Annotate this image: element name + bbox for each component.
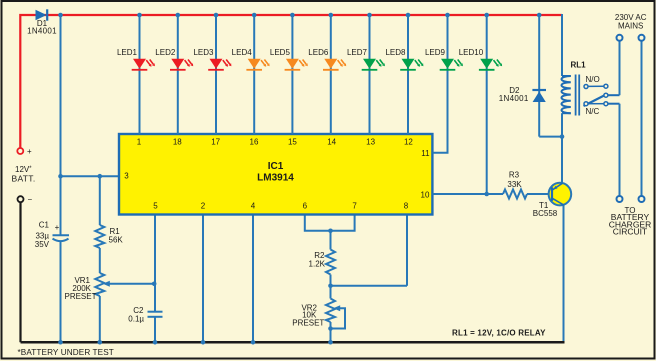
svg-text:BATT.: BATT. [12,174,36,184]
svg-text:LED1: LED1 [117,48,138,57]
svg-text:1N4001: 1N4001 [27,27,57,36]
svg-text:10: 10 [421,191,430,200]
svg-text:LED6: LED6 [308,48,329,57]
transistor T1 BC558 [533,183,571,218]
230V AC mains terminals [615,13,647,41]
svg-text:8: 8 [404,202,409,211]
preset VR1 [64,273,154,342]
svg-text:+: + [55,223,60,232]
LED LED7 [347,48,385,70]
svg-text:PRESET: PRESET [64,292,96,301]
wire: LED10 column [486,15,488,194]
wire: C1 branch vertical [60,15,62,235]
svg-text:18: 18 [173,138,182,147]
node VR2 bottom junction [328,326,333,331]
wire: R2 bottom to pin8 [331,285,408,287]
resistor R2 [309,231,335,286]
wire LED5 column [291,15,293,134]
ground rail junction nodes [58,340,333,345]
svg-text:BC558: BC558 [533,209,558,218]
svg-text:N/O: N/O [586,75,600,84]
relay contacts [584,84,620,106]
battery - terminal [18,195,33,204]
svg-text:56K: 56K [109,236,124,245]
LED LED1 [117,48,155,70]
node pin3/C1 junction [58,174,63,179]
wire: battery negative (black) [19,203,21,343]
LED LED2 [155,48,193,70]
relay RL1 coil [561,14,586,184]
svg-text:PRESET: PRESET [292,319,324,328]
svg-text:2: 2 [201,202,206,211]
wire: +12V red rail [20,15,562,148]
wire: pin8 vertical [406,214,408,286]
wire LED3 column [215,15,217,134]
N/O contact [584,85,588,89]
svg-text:5: 5 [153,202,158,211]
wire: N/C down to charger [619,104,621,196]
svg-text:33µ: 33µ [35,231,49,240]
battery + terminal [12,147,36,184]
battery charger terminals [609,196,652,237]
svg-text:C1: C1 [39,221,50,230]
wire LED8 column [407,15,409,134]
node R2 bottom junction [328,284,333,289]
svg-text:N/C: N/C [586,107,600,116]
node R2 top junction [328,229,333,234]
wire LED2 column [177,15,179,134]
wire: ground rail [21,341,565,344]
svg-text:1: 1 [137,138,142,147]
svg-text:R3: R3 [509,171,520,180]
svg-text:16: 16 [250,138,259,147]
svg-text:LED3: LED3 [193,48,214,57]
svg-text:*BATTERY UNDER TEST: *BATTERY UNDER TEST [18,348,114,357]
LED LED5 [270,48,308,70]
IC IC1 LM3914 [119,134,432,215]
svg-text:1.2K: 1.2K [309,260,326,269]
svg-text:IC1: IC1 [268,161,284,172]
diode D1 [27,9,57,35]
svg-text:CIRCUIT: CIRCUIT [613,227,647,237]
wire LED1 column [139,15,141,134]
svg-text:LED4: LED4 [232,48,253,57]
wire: pin4 vertical [252,214,254,342]
svg-text:4: 4 [251,202,256,211]
svg-text:LM3914: LM3914 [257,173,294,184]
wire: pin11 to LED9 column [432,15,447,153]
svg-text:MAINS: MAINS [618,21,643,30]
svg-text:−: − [28,195,33,204]
pole [604,93,608,97]
svg-text:LED7: LED7 [347,48,368,57]
svg-text:1N4001: 1N4001 [499,94,529,103]
LED LED8 [385,48,423,70]
N/C contact [584,102,588,106]
wire: mains neutral down to charger [641,41,643,196]
wire LED7 column [369,15,371,134]
wire: mains live down to pole [619,41,621,95]
node VR1 wiper / pin5 junction [152,282,157,287]
resistor R3 [503,171,549,199]
svg-text:14: 14 [327,138,336,147]
wires: pin6+pin7 join [305,214,355,231]
armature lever [584,96,604,106]
wire: D2 bottom to relay/collector node [539,136,562,138]
svg-text:11: 11 [421,149,430,158]
svg-text:LED5: LED5 [270,48,291,57]
svg-text:3: 3 [124,172,129,181]
svg-text:+: + [27,147,32,156]
wire: collector down to ground [563,206,565,343]
capacitor C1 [35,221,69,250]
LED LED10 [459,48,502,70]
svg-text:7: 7 [352,202,357,211]
resistor R1 [95,176,123,273]
svg-text:LED10: LED10 [459,48,484,57]
rail junction nodes [58,13,541,18]
svg-text:LED2: LED2 [155,48,176,57]
svg-text:12: 12 [404,138,413,147]
svg-text:35V: 35V [35,240,50,249]
svg-text:LED9: LED9 [425,48,446,57]
wire LED6 column [330,15,332,134]
preset VR2 [292,286,345,342]
diode D2 [499,15,546,137]
wire: pin2 vertical [202,214,204,342]
wire: pin3 horizontal [61,175,121,177]
capacitor C2 [128,306,162,323]
node pin10/LED10 junction [484,192,489,197]
LED wires (columns 1-8) [140,15,409,134]
LED LED3 [193,48,231,70]
svg-text:RL1: RL1 [571,61,587,70]
svg-text:33K: 33K [507,180,522,189]
svg-text:15: 15 [288,138,297,147]
node D2/relay junction [560,134,565,139]
svg-text:17: 17 [211,138,220,147]
LED LED4 [232,48,270,70]
svg-text:6: 6 [303,202,308,211]
wire LED4 column [253,15,255,134]
wire: pin5 / C2 column [154,214,156,312]
svg-text:RL1 = 12V, 1C/O RELAY: RL1 = 12V, 1C/O RELAY [452,329,546,338]
svg-text:LED8: LED8 [385,48,406,57]
svg-text:0.1µ: 0.1µ [128,314,144,323]
LED LED6 [308,48,346,70]
svg-text:13: 13 [366,138,375,147]
LED LED9 [425,48,463,70]
wire: pin10 horizontal to R3 [432,193,503,195]
node pin3/R1 junction [98,174,103,179]
